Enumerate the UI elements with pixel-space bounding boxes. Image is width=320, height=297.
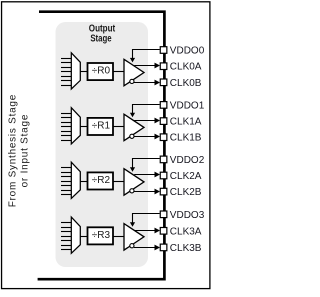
wire mux M2 to divider R2 bbox=[80, 181, 87, 183]
wire divider R3 to buffer A3 bbox=[113, 236, 125, 238]
svg-text:CLK1A: CLK1A bbox=[170, 117, 202, 128]
wire mux M0 to divider R0 bbox=[80, 71, 87, 73]
wire divider R0 to buffer A0 bbox=[113, 71, 125, 73]
pin VDDO1 bbox=[160, 100, 204, 111]
pin CLK2B bbox=[160, 187, 202, 198]
wire buffer A2 to CLK2A bbox=[134, 174, 157, 176]
wire VDDO2 to buffer A2 bbox=[133, 159, 160, 169]
inversion bubble A3 bbox=[130, 244, 134, 248]
svg-text:÷R0: ÷R0 bbox=[92, 66, 111, 77]
svg-text:VDDO1: VDDO1 bbox=[170, 100, 205, 111]
wire VDDO0 to buffer A0 bbox=[133, 50, 160, 60]
svg-text:÷R2: ÷R2 bbox=[92, 175, 111, 186]
wire divider R2 to buffer A2 bbox=[113, 181, 125, 183]
wire buffer A1 to CLK1A bbox=[134, 120, 157, 122]
label: From Synthesis Stage or Input Stage bbox=[7, 94, 30, 207]
svg-text:VDDO3: VDDO3 bbox=[170, 210, 205, 221]
pin VDDO0 bbox=[160, 46, 204, 57]
wire buffer A1 to CLK1B bbox=[134, 136, 157, 138]
svg-text:CLK0A: CLK0A bbox=[170, 62, 202, 73]
divider R0 bbox=[88, 63, 114, 80]
mux M1 input wires bbox=[61, 114, 72, 141]
mux M3 bbox=[71, 217, 80, 253]
svg-text:or Input Stage: or Input Stage bbox=[20, 114, 31, 187]
mux M0 bbox=[71, 53, 80, 89]
output stage block bbox=[56, 22, 149, 267]
svg-text:From Synthesis Stage: From Synthesis Stage bbox=[7, 94, 18, 207]
divider R2 bbox=[88, 172, 114, 189]
inversion bubble A2 bbox=[130, 189, 134, 193]
wire buffer A3 to CLK3A bbox=[134, 230, 157, 232]
svg-text:VDDO2: VDDO2 bbox=[170, 155, 205, 166]
pin CLK3A bbox=[160, 226, 202, 237]
buffer A0 bbox=[124, 59, 144, 86]
mux M1 bbox=[71, 108, 80, 144]
wire mux M1 to divider R1 bbox=[80, 126, 87, 128]
pin CLK0A bbox=[160, 62, 202, 73]
wire buffer A2 to CLK2B bbox=[134, 191, 157, 193]
inversion bubble A1 bbox=[130, 134, 134, 138]
device boundary bus bbox=[38, 12, 165, 280]
wire buffer A0 to CLK0A bbox=[134, 65, 157, 67]
inversion bubble A0 bbox=[130, 79, 134, 83]
svg-text:VDDO0: VDDO0 bbox=[170, 46, 205, 57]
svg-text:CLK1B: CLK1B bbox=[170, 133, 202, 144]
wire mux M3 to divider R3 bbox=[80, 236, 87, 238]
pin VDDO2 bbox=[160, 155, 204, 166]
svg-text:CLK0B: CLK0B bbox=[170, 78, 202, 89]
mux M3 input wires bbox=[61, 223, 72, 250]
pin CLK1A bbox=[160, 117, 202, 128]
svg-text:÷R3: ÷R3 bbox=[92, 230, 111, 241]
wire VDDO1 to buffer A1 bbox=[133, 105, 160, 114]
wire buffer A0 to CLK0B bbox=[134, 82, 157, 84]
mux M0 input wires bbox=[61, 59, 72, 86]
wire buffer A3 to CLK3B bbox=[134, 247, 157, 249]
svg-text:÷R1: ÷R1 bbox=[92, 121, 111, 132]
pin CLK0B bbox=[160, 78, 202, 89]
title: Output Stage bbox=[89, 23, 116, 44]
wire divider R1 to buffer A1 bbox=[113, 126, 125, 128]
pin CLK1B bbox=[160, 133, 202, 144]
pin CLK3B bbox=[160, 243, 202, 254]
buffer A3 bbox=[124, 224, 144, 251]
wire VDDO3 to buffer A3 bbox=[133, 214, 160, 224]
mux M2 bbox=[71, 162, 80, 198]
svg-text:Stage: Stage bbox=[90, 34, 112, 45]
divider R3 bbox=[88, 227, 114, 244]
buffer A2 bbox=[124, 169, 144, 196]
svg-text:CLK2B: CLK2B bbox=[170, 187, 202, 198]
pin CLK2A bbox=[160, 171, 202, 182]
svg-text:CLK2A: CLK2A bbox=[170, 171, 202, 182]
divider R1 bbox=[88, 118, 114, 135]
svg-text:CLK3A: CLK3A bbox=[170, 226, 202, 237]
mux M2 input wires bbox=[61, 168, 72, 195]
svg-text:CLK3B: CLK3B bbox=[170, 243, 202, 254]
pin VDDO3 bbox=[160, 210, 204, 221]
buffer A1 bbox=[124, 114, 144, 141]
